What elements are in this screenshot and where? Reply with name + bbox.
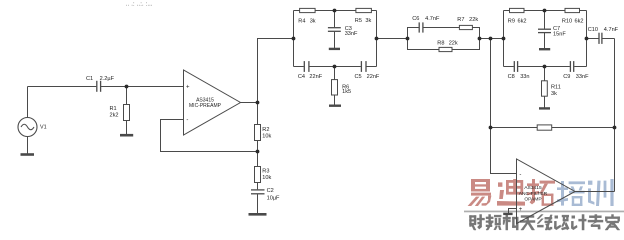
svg-text:33n: 33n (520, 74, 529, 80)
wire R6 to ground (334, 95, 336, 105)
ground U2 plus (503, 213, 512, 215)
capacitor C1 (97, 81, 101, 92)
wire filter1 top row left (294, 10, 300, 12)
wire C4 to C5 (309, 66, 361, 68)
ground R6 (329, 104, 341, 106)
resistor R3 (255, 167, 261, 183)
svg-text:R4: R4 (298, 19, 305, 25)
svg-text:R8: R8 (437, 40, 444, 46)
svg-text:1k5: 1k5 (342, 89, 351, 95)
svg-text:R3: R3 (262, 169, 269, 175)
svg-text:R5: R5 (355, 18, 362, 24)
wire R8 branch left (408, 39, 440, 50)
capacitor C10 (599, 33, 602, 44)
svg-text:10k: 10k (262, 133, 271, 139)
watermark slogan gray text (470, 215, 620, 231)
wire filter1 bottom row left (294, 66, 304, 68)
node filter1 input (292, 37, 296, 41)
wire feedback U1 (161, 120, 258, 152)
wire C7 stem (544, 11, 546, 29)
svg-text:10k: 10k (262, 175, 271, 181)
source V1 (18, 118, 37, 137)
svg-text:6k2: 6k2 (575, 19, 584, 25)
svg-text:OPAMP: OPAMP (524, 197, 541, 203)
svg-text:C8: C8 (508, 74, 515, 80)
wire filter2 left edge (503, 11, 505, 67)
node filter2 input (502, 37, 506, 41)
wire filter1 left edge (293, 11, 295, 67)
wire U1 output (241, 102, 258, 104)
wire C6 branch up (408, 28, 419, 39)
svg-text:3k: 3k (551, 91, 557, 97)
wire C1 to opamp (101, 86, 184, 88)
wire filter1 top row right (371, 10, 376, 12)
svg-text:MIC-PREAMP: MIC-PREAMP (189, 103, 222, 109)
svg-text:-: - (186, 117, 188, 123)
wire output node to R2 (257, 103, 259, 125)
ground C7 (539, 48, 550, 50)
svg-text:R11: R11 (551, 84, 561, 90)
svg-text:AS3415: AS3415 (524, 185, 542, 191)
wire C2 to ground (257, 194, 259, 213)
node filter2 bottom center (543, 65, 547, 69)
wire U2 plus stub (509, 209, 517, 214)
svg-text:.. .: ..:. :...: .. .: ..:. :... (126, 2, 153, 8)
wire C8 to C9 (518, 66, 570, 68)
wire riser to filter1 (258, 39, 294, 103)
wire R6 stem (334, 67, 336, 80)
ground R11 (539, 107, 550, 109)
svg-text:2k2: 2k2 (110, 112, 119, 118)
wire R1 drop (126, 87, 128, 105)
wire right rail (614, 39, 616, 192)
svg-text:15nF: 15nF (553, 32, 566, 38)
wire R7 branch down (472, 28, 479, 39)
resistor R6 (332, 80, 338, 95)
node filter1 top center (333, 9, 337, 13)
svg-text:C5: C5 (355, 74, 362, 80)
op-amp U2 triangle (517, 159, 576, 224)
wire R11 to ground (544, 96, 546, 107)
svg-text:C10: C10 (588, 27, 598, 33)
wire filter1 right edge (376, 11, 378, 67)
node C1-R1 junction (125, 85, 129, 89)
wire R3 to C2 (257, 183, 259, 190)
resistor R5 (356, 8, 372, 12)
op-amp U1 triangle (184, 70, 241, 135)
wire R11 stem (544, 67, 546, 81)
capacitor C4 (304, 61, 309, 72)
node C6-R8 left (406, 37, 410, 41)
wire V1 bottom stem (27, 137, 29, 154)
wire filter2 out to C10 (587, 38, 599, 40)
wire feedback2 right (552, 127, 615, 129)
wire filter2 top row left (504, 10, 510, 12)
node U1 output (256, 101, 260, 105)
svg-text:33nF: 33nF (576, 74, 589, 80)
wire R1 to ground (126, 121, 128, 135)
svg-text:R2: R2 (262, 127, 269, 133)
wire minus drop (491, 39, 517, 174)
node minus branch (489, 37, 493, 41)
svg-text:22k: 22k (449, 40, 458, 46)
resistor R8 (439, 47, 452, 51)
svg-text:4.7nF: 4.7nF (604, 27, 619, 33)
resistor R9 (510, 8, 525, 12)
feedback resistor (537, 125, 552, 130)
svg-text:2.2µF: 2.2µF (100, 76, 115, 82)
capacitor C9 (570, 61, 573, 72)
ground V1 (21, 153, 35, 156)
wire C3 to ground (334, 32, 336, 49)
svg-text:C1: C1 (86, 76, 93, 82)
svg-text:+: + (186, 85, 190, 91)
ground C3 (329, 48, 340, 50)
ground C2 (249, 213, 267, 216)
svg-text:R9: R9 (508, 19, 515, 25)
svg-text:4.7nF: 4.7nF (425, 16, 440, 22)
wire R2 to node (257, 140, 259, 166)
wire to filter2 (480, 38, 504, 40)
capacitor C8 (514, 61, 517, 72)
node filter2 top center (543, 9, 547, 13)
svg-text:+: + (519, 207, 523, 213)
capacitor C5 (361, 61, 366, 72)
node feedback2 right (613, 126, 617, 130)
capacitor C7 (538, 29, 551, 32)
wire filter1 bottom row right (367, 66, 377, 68)
resistor R7 (459, 25, 472, 29)
wire filter2 top row right (580, 10, 587, 12)
node R7-R8 right (478, 37, 482, 41)
node feedback2 left (489, 126, 493, 130)
wire input to C1 (28, 86, 97, 88)
wire feedback2 left (491, 127, 538, 129)
wire R9 to R10 (524, 10, 565, 12)
watermark logo text red part (468, 179, 555, 206)
wire R4 to R5 (315, 10, 356, 12)
wire V1 top stem (27, 87, 29, 118)
node R2-R3 feedback (256, 150, 260, 154)
watermark logo text blue part (557, 179, 614, 206)
node filter1 bottom center (333, 65, 337, 69)
ground R1 (120, 134, 133, 137)
svg-text:R7: R7 (457, 17, 464, 23)
svg-text:C9: C9 (563, 74, 570, 80)
wire R8 branch right (452, 39, 480, 50)
wire C7 to ground (544, 33, 546, 49)
svg-text:C4: C4 (298, 74, 305, 80)
svg-text:ANC-FILTER: ANC-FILTER (519, 191, 548, 197)
svg-text:3k: 3k (365, 18, 371, 24)
svg-text:C6: C6 (412, 16, 419, 22)
resistor R1 (124, 105, 130, 121)
capacitor C6 (419, 22, 423, 32)
wire filter2 bottom row right (574, 66, 586, 68)
watermark rule line (464, 211, 624, 213)
svg-text:R1: R1 (110, 106, 117, 112)
svg-text:6k2: 6k2 (518, 19, 527, 25)
capacitor C3 (328, 28, 341, 32)
node dots (125, 9, 617, 154)
svg-text:3k: 3k (310, 19, 316, 25)
svg-text:22k: 22k (469, 17, 478, 23)
svg-text:V1: V1 (40, 125, 47, 131)
svg-text:33nF: 33nF (345, 31, 358, 37)
wire filter2 bottom row left (504, 66, 514, 68)
svg-text:22nF: 22nF (309, 74, 322, 80)
resistor R2 (255, 125, 261, 141)
wire filter1 to C6 node (377, 38, 408, 40)
node filter1 output (375, 37, 379, 41)
wire filter2 right edge (586, 11, 588, 67)
svg-text:22nF: 22nF (367, 74, 380, 80)
wire C10 to right rail (602, 38, 614, 40)
svg-text:10µF: 10µF (267, 195, 280, 201)
resistor R10 (565, 8, 580, 12)
resistor R11 (542, 81, 548, 96)
wire C6 to R7 (423, 27, 459, 29)
svg-text:R10: R10 (562, 19, 572, 25)
svg-text:C2: C2 (267, 188, 274, 194)
node filter2 output (585, 37, 589, 41)
capacitor C2 (251, 190, 265, 194)
wire C3 stem (334, 11, 336, 28)
resistor R4 (300, 8, 316, 12)
wire U2 output (575, 191, 615, 193)
svg-text:-: - (519, 172, 521, 178)
